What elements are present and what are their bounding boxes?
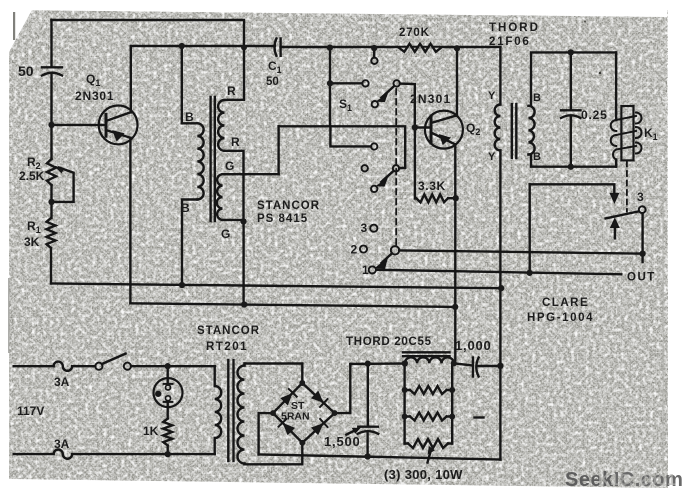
svg-text:270K: 270K — [399, 27, 430, 39]
svg-text:PS 8415: PS 8415 — [257, 213, 308, 225]
svg-text:3: 3 — [637, 190, 644, 204]
svg-text:STANCOR: STANCOR — [257, 200, 320, 212]
svg-text:R: R — [227, 84, 236, 98]
svg-text:STANCOR: STANCOR — [197, 325, 260, 337]
svg-text:2.5K: 2.5K — [19, 169, 45, 183]
svg-text:Y: Y — [488, 90, 496, 102]
svg-text:2N301: 2N301 — [410, 92, 451, 106]
svg-text:B: B — [533, 92, 541, 104]
svg-text:3A: 3A — [54, 437, 70, 451]
svg-text:1: 1 — [362, 263, 369, 277]
svg-text:21F06: 21F06 — [489, 36, 531, 48]
svg-text:HPG-1004: HPG-1004 — [527, 312, 594, 324]
svg-text:3.3K: 3.3K — [418, 179, 446, 193]
svg-text:50: 50 — [18, 63, 34, 79]
svg-text:117V: 117V — [17, 404, 44, 418]
svg-text:50: 50 — [266, 76, 279, 88]
svg-text:THORD 20C55: THORD 20C55 — [346, 336, 432, 348]
svg-text:G: G — [221, 227, 230, 241]
svg-text:R: R — [231, 135, 240, 149]
svg-text:B: B — [185, 110, 194, 124]
svg-text:(3) 300, 10W: (3) 300, 10W — [384, 467, 463, 482]
svg-text:3: 3 — [361, 221, 368, 235]
svg-text:CLARE: CLARE — [542, 297, 589, 309]
svg-text:K18. 2001: K18. 2001 — [598, 472, 676, 489]
svg-text:THORD: THORD — [489, 22, 540, 34]
svg-text:1,000: 1,000 — [455, 338, 492, 353]
svg-text:2N301: 2N301 — [75, 89, 114, 103]
svg-text:B: B — [181, 201, 190, 215]
svg-text:Y: Y — [488, 151, 496, 163]
svg-text:1,500: 1,500 — [324, 434, 361, 449]
svg-text:2: 2 — [351, 243, 358, 257]
svg-text:B: B — [533, 151, 541, 163]
svg-text:OUT: OUT — [627, 272, 656, 284]
svg-text:G: G — [225, 159, 234, 173]
svg-text:3A: 3A — [54, 375, 70, 389]
svg-text:0.25: 0.25 — [581, 108, 608, 122]
svg-text:3K: 3K — [24, 235, 40, 249]
svg-text:5RAN: 5RAN — [281, 411, 310, 423]
svg-text:1K: 1K — [143, 424, 159, 438]
svg-text:RT201: RT201 — [206, 341, 248, 353]
